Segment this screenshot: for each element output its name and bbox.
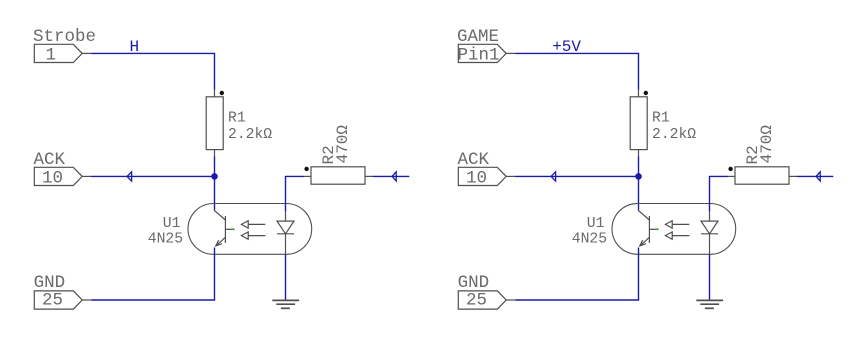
pin-1 dot of left R2 — [304, 167, 308, 171]
LED of left U1 — [277, 212, 294, 255]
wire right U1 cathode to ground — [709, 254, 711, 300]
svg-text:H: H — [130, 38, 140, 56]
svg-text:U1: U1 — [163, 216, 181, 232]
svg-text:+5V: +5V — [552, 38, 581, 56]
connector right GND pin 25 — [458, 291, 515, 309]
light arrow upper of left U1 — [241, 221, 265, 228]
junction node A — [635, 173, 642, 180]
svg-text:R1: R1 — [652, 111, 670, 127]
ground symbol right — [696, 300, 723, 308]
svg-text:2.2kΩ: 2.2kΩ — [228, 127, 272, 143]
svg-text:4N25: 4N25 — [148, 231, 183, 247]
svg-text:25: 25 — [466, 291, 487, 311]
ground symbol left — [272, 300, 299, 308]
wire left ACK to node A — [91, 175, 214, 177]
light arrow upper of right U1 — [665, 221, 689, 228]
light arrow lower of right U1 — [665, 232, 689, 239]
svg-text:25: 25 — [42, 291, 63, 311]
svg-text:1: 1 — [46, 45, 57, 65]
light arrow lower of left U1 — [241, 232, 265, 239]
transistor of left U1 — [214, 210, 233, 246]
direction arrow on R2 stub — [816, 172, 820, 181]
direction arrow on R2 stub — [392, 172, 396, 181]
resistor right R1 — [630, 90, 647, 157]
pin-1 dot of left R1 — [220, 91, 224, 95]
svg-text:ACK: ACK — [458, 150, 490, 170]
svg-text:GAME: GAME — [457, 27, 499, 47]
junction node A — [211, 173, 218, 180]
pin-1 dot of right R2 — [728, 167, 732, 171]
svg-text:Strobe: Strobe — [33, 27, 96, 47]
wire right R2 right stub — [797, 175, 834, 177]
wire left R2 right stub — [373, 175, 410, 177]
wire right node A to U1 collector — [638, 176, 640, 210]
connector left ACK pin 10 — [34, 167, 91, 185]
svg-text:4N25: 4N25 — [572, 231, 607, 247]
svg-text:2.2kΩ: 2.2kΩ — [652, 127, 696, 143]
pin-1 dot of right R1 — [644, 91, 648, 95]
direction arrow on ACK wire — [551, 172, 556, 181]
wire right net +5V: GAME to R1 top — [515, 53, 638, 89]
wire right U1 anode to R2 left — [710, 176, 729, 211]
optocoupler left U1 body — [188, 204, 312, 255]
svg-text:Pin1: Pin1 — [458, 45, 500, 65]
LED of right U1 — [701, 212, 718, 255]
resistor right R2 — [728, 167, 797, 184]
connector right GAME pin Pin1 — [458, 44, 515, 62]
wire left R1 bottom to node A — [214, 156, 216, 176]
wire left U1 anode to R2 left — [286, 176, 305, 211]
wire left U1 emitter to GND connector — [91, 248, 214, 301]
direction arrow on ACK wire — [127, 172, 132, 181]
connector right ACK pin 10 — [458, 167, 515, 185]
wire right ACK to node A — [515, 175, 638, 177]
wire left U1 cathode to ground — [285, 254, 287, 300]
svg-text:ACK: ACK — [34, 150, 66, 170]
wire right R1 bottom to node A — [638, 156, 640, 176]
svg-text:470Ω: 470Ω — [334, 125, 352, 164]
transistor of right U1 — [638, 210, 657, 246]
resistor left R1 — [206, 90, 223, 157]
svg-text:10: 10 — [42, 168, 63, 188]
wire left net H: Strobe to R1 top — [91, 53, 214, 89]
resistor left R2 — [304, 167, 373, 184]
wire left node A to U1 collector — [214, 176, 216, 210]
connector left Strobe pin 1 — [34, 44, 91, 62]
base pin end marker — [657, 228, 659, 230]
svg-text:10: 10 — [466, 168, 487, 188]
svg-text:470Ω: 470Ω — [758, 125, 776, 164]
optocoupler right U1 body — [612, 204, 736, 255]
svg-text:R1: R1 — [228, 111, 246, 127]
wire right U1 emitter to GND connector — [515, 248, 638, 301]
svg-text:U1: U1 — [587, 216, 605, 232]
base pin end marker — [233, 228, 235, 230]
connector left GND pin 25 — [34, 291, 91, 309]
